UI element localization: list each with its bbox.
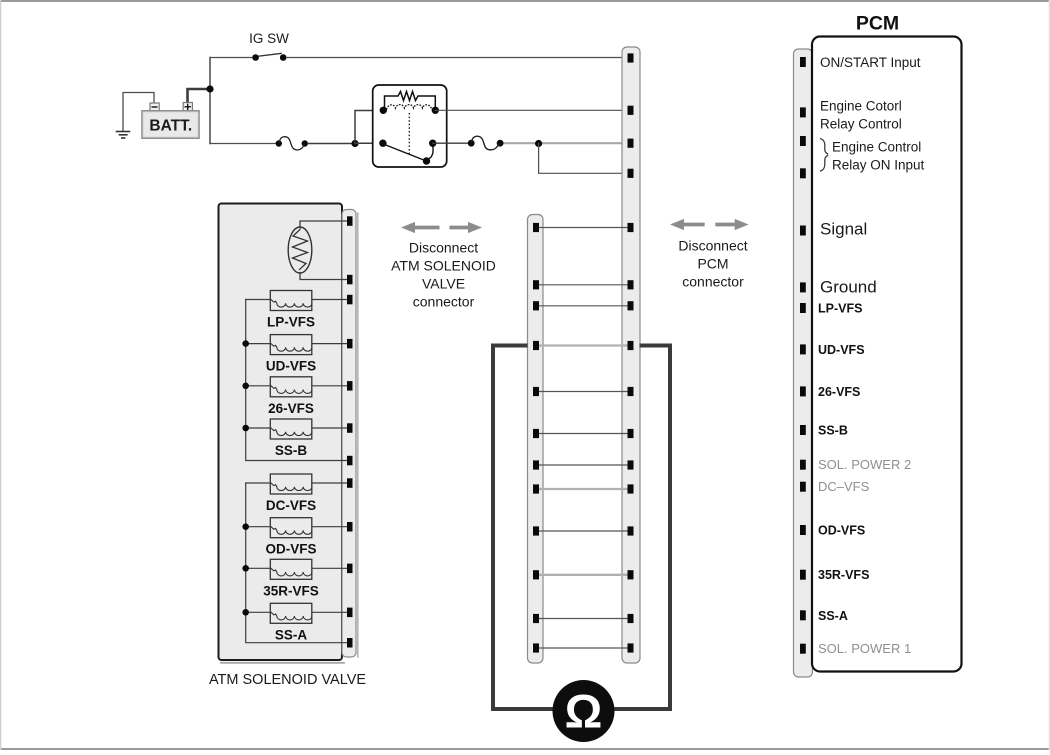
svg-text:DC–VFS: DC–VFS [818,479,870,494]
svg-text:PCM: PCM [856,13,899,35]
wire J2 up to relay coil [355,111,382,144]
node bus1-UD [242,340,249,347]
fuse F2 [468,136,504,150]
solenoid OD-VFS [246,518,347,557]
relay switch armature [385,145,426,161]
wire battery negative to ground [123,93,154,132]
node bus1-SSB [242,425,249,432]
connector C-A body (harness side of ATM solenoid connector) [528,215,544,664]
relay coil terminal left [380,107,387,114]
connector C-D pins [800,57,806,654]
wire J1 to fuse [210,143,276,145]
wire J3 branch to connector pin 4 [539,144,628,174]
bus group 2 [246,483,347,643]
svg-text:SS-A: SS-A [275,627,308,642]
battery BATT. [142,103,199,139]
svg-text:Disconnect: Disconnect [678,238,747,254]
wire rung row 1 [539,227,628,229]
solenoid 35R-VFS [246,559,347,598]
node J2 [351,140,358,147]
svg-text:ATM SOLENOID VALVE: ATM SOLENOID VALVE [209,672,366,688]
SECTION: ohmmeter loop [493,346,670,743]
wire oil temp sensor bottom to pin [300,273,347,280]
svg-text:ON/START Input: ON/START Input [820,55,921,70]
SECTION: battery and ignition [117,31,628,150]
svg-text:Engine Cotorl: Engine Cotorl [820,99,902,114]
solenoid SS-A [246,603,347,642]
svg-text:Relay Control: Relay Control [820,117,902,132]
connector C-B pins [628,53,634,652]
relay coil [387,105,432,110]
SECTION: PCM [794,13,962,678]
svg-text:DC-VFS: DC-VFS [266,498,316,513]
label Engine Control Relay ON Input [832,140,925,173]
svg-text:OD-VFS: OD-VFS [818,524,865,538]
wire rung row 2 [539,284,628,286]
svg-text:26-VFS: 26-VFS [268,401,314,416]
ATM solenoid valve box [219,204,358,663]
svg-text:connector: connector [682,274,744,290]
svg-text:UD-VFS: UD-VFS [818,343,865,357]
arrow left (PCM disconnect) [670,219,705,230]
svg-text:Ground: Ground [820,278,877,297]
svg-text:35R-VFS: 35R-VFS [818,568,869,582]
wire J2 to relay switch contact [355,142,382,144]
arrow right (PCM disconnect) [715,219,748,230]
svg-text:ATM SOLENOID: ATM SOLENOID [391,258,496,274]
arrow left (ATM solenoid disconnect) [401,222,440,233]
wire rung row 11 [539,618,628,620]
svg-text:Ω: Ω [565,685,603,738]
wire J1 to IG SW [210,57,252,59]
wire rung row 3 [539,305,628,307]
SECTION: solenoid valve box [209,204,366,689]
SECTION: ladder connectors [528,47,641,663]
svg-text:OD-VFS: OD-VFS [265,542,316,557]
wire ohmmeter measuring loop (thick) [493,346,670,710]
arrow right (ATM solenoid disconnect) [450,222,483,233]
fuse F1 [276,137,308,150]
wire relay switch to fuse F2 [433,142,471,144]
relay switch common [423,157,430,164]
connector C-D body (PCM side) [794,49,813,677]
node bus2-OD [242,523,249,530]
wire fuse F1 to node J2 [308,143,352,145]
solenoid SS-B [246,419,347,458]
relay box [373,85,447,167]
wire rung row 6 [539,433,628,435]
node bus2-SSA [242,609,249,616]
ohmmeter [553,680,615,742]
solenoid LP-VFS [246,291,347,330]
svg-text:UD-VFS: UD-VFS [266,359,316,374]
svg-text:VALVE: VALVE [422,276,465,292]
wire rung row 4 (gray) [539,344,628,346]
wire relay coil to connector pin 2 [435,109,627,111]
connector C-A pins [533,223,539,653]
wire fuse F2 to node J3 (gray) [500,142,627,144]
label Disconnect ATM SOLENOID VALVE connector [391,240,496,310]
svg-text:SOL. POWER 2: SOL. POWER 2 [818,457,911,472]
relay switch contact left [379,140,386,147]
svg-text:Relay ON Input: Relay ON Input [832,158,925,173]
switch IG SW [249,31,289,61]
wire rung row 8 (gray) [539,488,628,490]
relay resistor [385,92,436,109]
connector C-B body (harness side of PCM connector) [622,47,640,663]
relay switch contact right [429,140,436,147]
svg-text:SS-B: SS-B [818,424,848,438]
brace Engine Control Relay ON Input [820,139,828,172]
svg-text:SS-B: SS-B [275,443,308,458]
wire rung row 12 [539,647,628,649]
SECTION: disconnect labels [391,219,749,310]
svg-text:Signal: Signal [820,220,867,239]
node bus1-26 [242,383,249,390]
wire rung row 9 [539,530,628,532]
label Engine Cotorl Relay Control [820,99,902,132]
label Disconnect PCM connector [678,238,747,290]
connector C-C body (ATM solenoid valve side) [342,210,356,658]
wire battery positive to node J1 (thick) [188,58,211,144]
svg-text:SOL. POWER 1: SOL. POWER 1 [818,641,911,656]
svg-text:PCM: PCM [697,256,728,272]
wire oil temp sensor top to pin [300,221,347,228]
wire rung row 7 [539,464,628,466]
svg-text:SS-A: SS-A [818,609,848,623]
relay coil terminal right [432,107,439,114]
solenoid 26-VFS [246,377,347,416]
wire rung row 10 (gray) [539,574,628,576]
svg-text:LP-VFS: LP-VFS [267,315,315,330]
svg-text:Disconnect: Disconnect [409,240,478,256]
bus group 1 [246,300,347,461]
ground [117,132,130,139]
relay switch contact right hook [428,147,434,160]
node J1 [206,85,213,92]
svg-text:BATT.: BATT. [149,118,192,135]
solenoid DC-VFS [246,474,347,513]
node bus2-35R [242,565,249,572]
svg-text:connector: connector [413,294,475,310]
PCM box [812,37,962,672]
svg-text:Engine Control: Engine Control [832,140,921,155]
connector C-C pins [347,216,353,647]
relay actuator dotted link [408,113,410,154]
svg-text:IG SW: IG SW [249,31,289,46]
wire IG SW to connector pin 1 [286,57,627,59]
wire rung row 5 [539,391,628,393]
svg-text:LP-VFS: LP-VFS [818,302,862,316]
SECTION: relay area [351,85,627,173]
solenoid UD-VFS [246,335,347,374]
node J3 [535,140,542,147]
svg-text:35R-VFS: 35R-VFS [263,583,319,598]
oil temperature sensor (thermistor) [288,227,312,273]
svg-text:26-VFS: 26-VFS [818,385,860,399]
